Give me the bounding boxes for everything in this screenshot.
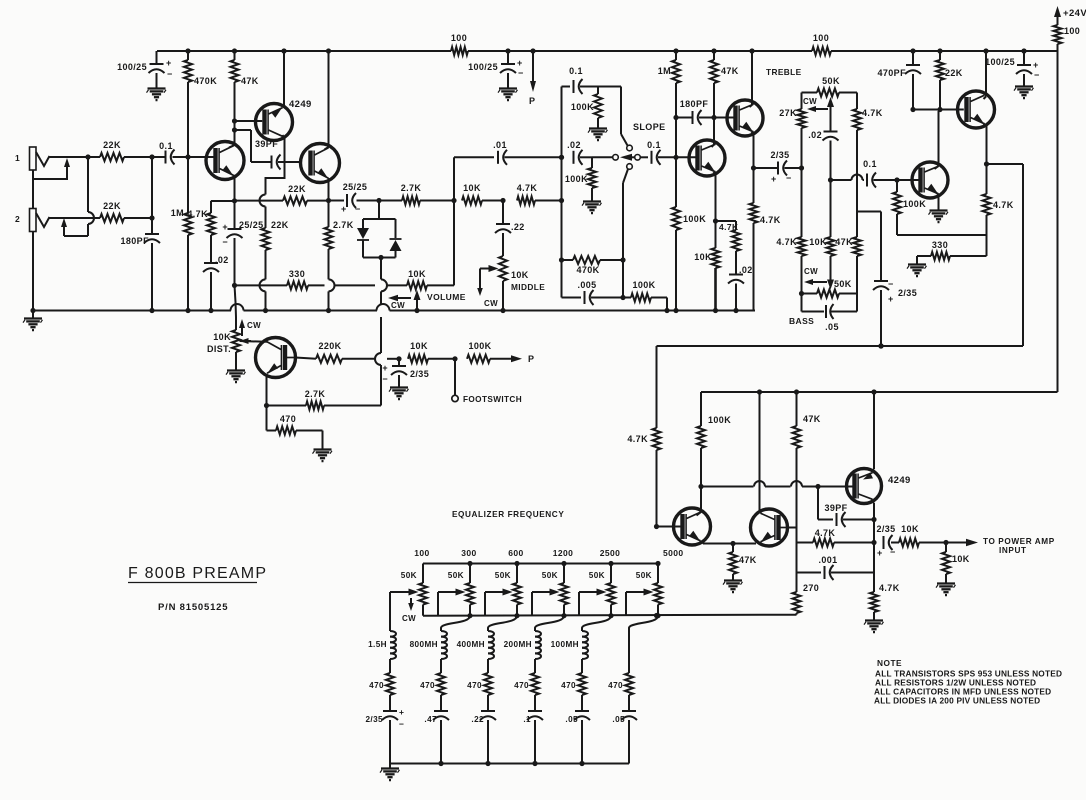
capacitor 180PF (input shunt) [120, 157, 160, 313]
resistor 10K (to middle node) [462, 183, 506, 205]
output arrow TO POWER AMP INPUT [946, 537, 1055, 555]
wire Q2 base [235, 120, 263, 122]
svg-text:+: + [877, 548, 883, 558]
wire Q9 emitter to mixer bus [987, 164, 1024, 346]
potentiometer 50K EQ 600Hz [495, 548, 524, 618]
potentiometer 10K VOLUME [407, 201, 454, 290]
capacitor 2/35 (branch 1) [365, 707, 404, 764]
resistor 4.7K (to slope bus) [517, 183, 564, 205]
resistor 22K (Q8/Q9 load) [936, 48, 963, 112]
resistor 100K (mid branch) with ground [565, 157, 602, 213]
svg-text:−: − [382, 374, 388, 384]
svg-text:ALL DIODES IA 200 PIV UNLESS: ALL DIODES IA 200 PIV UNLESS NOTED [874, 696, 1040, 706]
svg-text:4.7K: 4.7K [815, 528, 836, 538]
svg-text:100K: 100K [632, 280, 655, 290]
svg-text:.05: .05 [565, 715, 578, 724]
svg-text:+: + [1033, 60, 1039, 70]
svg-text:10K: 10K [408, 269, 426, 279]
resistor 47K (Q10/Q11 emitters) with ground [723, 544, 757, 593]
svg-text:300: 300 [461, 548, 476, 558]
EQ wiper 600Hz [485, 589, 513, 616]
svg-text:470PF: 470PF [877, 68, 906, 78]
wire Q4 collector line [296, 358, 317, 359]
svg-text:470: 470 [280, 414, 296, 424]
svg-text:.47: .47 [424, 715, 437, 724]
transistor Q2 4249 [256, 99, 312, 141]
capacitor 39PF (Q12 feedback) [818, 487, 874, 528]
potentiometer 50K EQ 100Hz [401, 548, 430, 616]
svg-text:2.7K: 2.7K [401, 183, 422, 193]
node P (power tap arrow) [529, 48, 536, 106]
resistor 22K (Q2 load, hops node line) [260, 195, 289, 280]
label EQUALIZER FREQUENCY [452, 510, 564, 519]
switch SLOPE [613, 122, 666, 161]
svg-text:22K: 22K [945, 68, 963, 78]
jack 1 switching contact [33, 158, 70, 179]
svg-text:22K: 22K [271, 220, 289, 230]
svg-text:.22: .22 [511, 222, 525, 232]
svg-text:470K: 470K [576, 265, 599, 275]
svg-text:100: 100 [1064, 26, 1080, 36]
svg-text:4.7K: 4.7K [862, 108, 883, 118]
svg-text:CW: CW [247, 321, 261, 330]
svg-text:BASS: BASS [789, 316, 814, 326]
svg-text:FOOTSWITCH: FOOTSWITCH [463, 395, 522, 404]
capacitor 25/25 (Q3 emitter coupling) [329, 182, 382, 214]
wire Q8 emitter with ground [929, 192, 949, 223]
wire Q1 emitter [232, 175, 237, 203]
svg-text:4.7K: 4.7K [993, 200, 1014, 210]
svg-text:100MH: 100MH [551, 640, 579, 649]
wire EQ branch 6 from pot bottom [629, 616, 658, 628]
svg-text:100: 100 [414, 548, 429, 558]
resistor 470K (slope low branch) [559, 256, 623, 275]
svg-text:4.7K: 4.7K [517, 183, 538, 193]
wire jack sleeves to ground [32, 179, 34, 311]
wire Q10 base [657, 526, 683, 528]
inductor 400MH [457, 628, 494, 673]
svg-text:+: + [166, 58, 172, 68]
svg-text:INPUT: INPUT [999, 546, 1027, 555]
svg-text:2/35: 2/35 [876, 524, 895, 534]
resistor 4.7K (emitter, to .02) [187, 201, 234, 263]
capacitor .05 (branch 5) [565, 711, 590, 764]
resistor 22K (jack2 series) [100, 201, 155, 222]
svg-text:10K: 10K [410, 341, 428, 351]
svg-text:4.7K: 4.7K [187, 209, 208, 219]
wire slope bus [561, 87, 563, 298]
node P arrow (dist send) [511, 354, 534, 364]
svg-text:−: − [222, 237, 228, 247]
resistor 4.7K (Q6 emitter) [750, 168, 781, 311]
wire Q11 left lead [760, 510, 761, 513]
svg-text:100: 100 [813, 33, 829, 43]
wire Q11 collector column [759, 392, 761, 510]
svg-text:CW: CW [402, 614, 416, 623]
resistor 1M (Q5 base) [658, 48, 680, 157]
svg-text:10K: 10K [213, 332, 231, 342]
svg-text:.01: .01 [493, 140, 507, 150]
resistor 2.7K (Q4 emitter to node) [267, 389, 382, 410]
bass wiper arrow [827, 272, 834, 290]
potentiometer 50K BASS [789, 279, 857, 326]
svg-text:220K: 220K [318, 341, 341, 351]
resistor 47K (tone right lower) [835, 212, 861, 294]
inductor 1.5H [368, 628, 396, 673]
ground (input jacks) [23, 308, 43, 330]
wire Q10 emitter line [701, 541, 757, 546]
wire right supply bus [1057, 51, 1059, 392]
wire EQ branch 2 from pot bottom [441, 616, 470, 628]
svg-text:47K: 47K [803, 414, 821, 424]
part number [158, 602, 228, 613]
capacitor 2/35 (decoupling) with ground [382, 359, 429, 399]
wire top rail [157, 44, 1058, 51]
resistor 10K (Q5 emitter) [694, 221, 719, 313]
wire EQ branch 3 from pot bottom [488, 616, 517, 628]
resistor 470 (branch 5) [561, 673, 586, 711]
footswitch contact [452, 359, 522, 404]
ground (EQ) [380, 764, 400, 781]
svg-text:470: 470 [420, 681, 435, 690]
resistor 10K (output shunt) with ground [936, 543, 970, 596]
resistor 470 (Q4 emitter to ground) [267, 406, 323, 448]
jack 2 switching contact [61, 218, 88, 236]
resistor 4.7K (mixer input) [627, 346, 660, 529]
svg-text:4.7K: 4.7K [627, 434, 648, 444]
svg-text:100K: 100K [565, 174, 588, 184]
capacitor 0.1 (input coupling) [149, 141, 216, 165]
wire Q4 emitter down [264, 376, 269, 409]
wire EQ branch 4 from pot bottom [535, 616, 564, 628]
EQ wiper 1200Hz [532, 589, 560, 616]
wire Q9 collector to rail [983, 48, 988, 99]
capacitor .01 (coupling to slope filter) [454, 140, 564, 201]
resistor 470 (branch 3) [467, 673, 492, 711]
resistor 100 (rail series, left) [451, 33, 468, 55]
capacitor .001 (feedback) [797, 543, 875, 581]
svg-text:−: − [1034, 70, 1040, 80]
svg-text:600: 600 [508, 548, 523, 558]
svg-text:4249: 4249 [888, 475, 911, 486]
transistor Q3 (second stage) [301, 144, 340, 183]
wire volume line continues [335, 284, 408, 286]
svg-text:P: P [529, 96, 535, 106]
svg-text:39PF: 39PF [255, 139, 278, 149]
wire Q3 collector to rail [325, 147, 329, 150]
capacitor 100/25 (input filter) with ground [117, 51, 173, 100]
resistor 470K (Q1 base bias) [184, 48, 217, 157]
wire jack2 contact to input node (hops jack2 line) [85, 154, 94, 236]
resistor 270 [793, 573, 820, 615]
wire Q6 collector to rail [749, 48, 754, 107]
resistor 470 (branch 1) [369, 673, 394, 711]
svg-text:F 800B PREAMP: F 800B PREAMP [128, 565, 267, 582]
svg-text:+: + [382, 363, 388, 373]
capacitor .22 (branch 3) [471, 711, 496, 764]
capacitor 25/25 (emitter bypass) [222, 201, 263, 288]
DIST CW annotation [239, 319, 261, 336]
resistor 470 (branch 4) [514, 673, 539, 711]
capacitor 100/25 (right filter) with ground [985, 48, 1040, 98]
svg-text:+: + [888, 294, 894, 304]
ground (470) [313, 447, 333, 461]
title F 800B PREAMP [128, 565, 267, 583]
wire 1.5H branch from wiper [389, 592, 391, 628]
svg-text:50K: 50K [822, 76, 840, 86]
potentiometer 50K EQ 300Hz [448, 548, 477, 618]
wire Q6 emitter [751, 132, 756, 171]
wire mixer input line (y=346) [657, 343, 1024, 348]
svg-text:.02: .02 [567, 140, 581, 150]
svg-text:+24V: +24V [1063, 8, 1086, 19]
svg-text:10K: 10K [694, 252, 712, 262]
svg-text:100K: 100K [683, 214, 706, 224]
capacitor 0.1 (switch output) [640, 140, 678, 165]
svg-text:VOLUME: VOLUME [427, 292, 466, 302]
wire EQ ground line [390, 761, 629, 766]
wire Q12 base [818, 486, 853, 488]
svg-text:4.7K: 4.7K [879, 583, 900, 593]
treble CW annotation [803, 97, 828, 112]
capacitor 2/35 (tone stack coupling) [754, 150, 805, 184]
transistor Q9 [958, 91, 995, 128]
svg-text:470: 470 [561, 681, 576, 690]
svg-text:470: 470 [467, 681, 482, 690]
capacitor 180PF (Q5 feedback) [676, 99, 717, 125]
svg-text:0.1: 0.1 [863, 159, 877, 169]
capacitor 470PF [877, 48, 921, 112]
capacitor 2/35 (output coupling) [876, 524, 899, 558]
wire Q5 base [676, 156, 698, 158]
wire Q6 base [714, 117, 736, 119]
capacitor .05 (branch 6) [612, 711, 637, 764]
resistor 100 (rail series, right) [812, 33, 831, 55]
capacitor .47 (branch 2) [424, 711, 449, 764]
resistor 100K (to ground rail) [623, 280, 670, 313]
resistor 4.7K (tone right top) [853, 93, 883, 212]
resistor 4.7K (fb to ground) [864, 573, 900, 633]
svg-text:1: 1 [15, 153, 20, 163]
svg-text:DIST.: DIST. [207, 344, 231, 354]
svg-text:TREBLE: TREBLE [766, 67, 802, 77]
svg-text:50K: 50K [589, 571, 605, 580]
svg-text:100K: 100K [468, 341, 491, 351]
DIST wiper arrow to Q4 [240, 338, 252, 344]
transistor Q4 (distortion) [256, 338, 296, 378]
svg-text:.001: .001 [818, 555, 837, 565]
wire mixer supply line (y=392) [701, 389, 1058, 394]
svg-text:.1: .1 [523, 715, 531, 724]
svg-text:4249: 4249 [289, 99, 312, 110]
svg-text:47K: 47K [721, 66, 739, 76]
svg-text:800MH: 800MH [410, 640, 438, 649]
svg-text:2: 2 [15, 214, 20, 224]
capacitor .02 (emitter series) [203, 255, 229, 313]
svg-text:−: − [888, 279, 894, 289]
svg-text:+: + [341, 204, 347, 214]
middle wiper arrow CW [477, 265, 498, 308]
resistor 47K (Q1 collector load) [231, 48, 259, 121]
svg-text:4.7K: 4.7K [760, 215, 781, 225]
svg-text:2/35: 2/35 [365, 715, 383, 724]
svg-text:MIDDLE: MIDDLE [511, 282, 545, 292]
svg-text:25/25: 25/25 [343, 182, 368, 192]
svg-text:EQUALIZER FREQUENCY: EQUALIZER FREQUENCY [452, 510, 564, 519]
svg-text:330: 330 [932, 240, 948, 250]
wire tone mid tap to 2/35 [857, 212, 881, 282]
svg-text:0.1: 0.1 [159, 141, 173, 151]
transistor Q6 [727, 100, 763, 136]
svg-text:39PF: 39PF [824, 503, 847, 513]
svg-text:22K: 22K [103, 201, 121, 211]
capacitor .05 (bass loop) [802, 294, 858, 333]
resistor 4.7K (mixer to output) [797, 528, 875, 547]
svg-text:2/35: 2/35 [410, 369, 429, 379]
resistor 2.7K (to volume node) [379, 183, 457, 205]
svg-text:CW: CW [804, 267, 818, 276]
svg-text:P: P [528, 354, 534, 364]
transistor Q1 (first stage) [206, 142, 244, 180]
svg-text:22K: 22K [103, 140, 121, 150]
potentiometer 10K MIDDLE [499, 256, 545, 313]
resistor 220K [316, 341, 402, 363]
EQ wiper 300Hz [438, 589, 466, 616]
wire EQ branch 5 from pot bottom [582, 616, 611, 628]
volume CW annotation [388, 295, 411, 310]
svg-text:−: − [518, 68, 524, 78]
wire Q8 base [897, 179, 921, 181]
svg-text:10K: 10K [511, 270, 529, 280]
svg-text:1M: 1M [171, 208, 184, 218]
wire EQ wiper bus [423, 613, 797, 618]
capacitor 100/25 (second filter) with ground [468, 48, 524, 100]
svg-text:47K: 47K [241, 76, 259, 86]
wire Q12 emitter column [873, 392, 875, 468]
wire Q8 collector to 22K node [935, 110, 941, 169]
resistor 2.7K (Q3 emitter, vertical) [325, 201, 354, 314]
wire 22K to ground rail (hops volume line) [260, 279, 269, 313]
wire Q12 collector bottom [871, 500, 877, 522]
wire feedback line to 100K [897, 234, 987, 236]
capacitor .02 (treble wiper) [808, 130, 838, 183]
resistor 330 with ground (Q9 emitter) [907, 235, 987, 276]
wire Q11 base lead to output node [788, 528, 797, 543]
svg-text:100K: 100K [708, 415, 731, 425]
svg-text:+: + [517, 58, 523, 68]
svg-text:NOTE: NOTE [877, 658, 902, 668]
svg-text:200MH: 200MH [504, 640, 532, 649]
wire volume line hops 2.7K column [329, 279, 335, 291]
svg-text:2/35: 2/35 [770, 150, 789, 160]
resistor 4.7K (Q5 emitter branch) [716, 221, 741, 274]
capacitor 0.1 (to Q8) [863, 159, 899, 188]
svg-text:.02: .02 [215, 255, 229, 265]
potentiometer 50K EQ 2500Hz [589, 548, 620, 618]
resistor 10K (output series) [899, 524, 949, 547]
svg-text:50K: 50K [448, 571, 464, 580]
resistor 4.7K (Q9 emitter) [983, 164, 1014, 235]
inductor 200MH [504, 628, 541, 673]
resistor 10K (tone mid lower) [809, 180, 834, 272]
wire Q2 emitter to rail [281, 48, 286, 106]
svg-text:22K: 22K [288, 184, 306, 194]
svg-text:470: 470 [369, 681, 384, 690]
wire Q4 base diag [240, 340, 268, 343]
wire Q5 emitter [713, 172, 718, 224]
svg-text:.02: .02 [739, 265, 753, 275]
resistor 22K (jack1 series) [88, 140, 152, 161]
svg-text:2.7K: 2.7K [305, 389, 326, 399]
svg-text:CW: CW [803, 97, 817, 106]
resistor 1M (base bias) [171, 157, 192, 313]
resistor 330 (Q3 emitter degeneration) [287, 269, 325, 289]
capacitor 39PF (feedback) [251, 139, 302, 170]
svg-text:−: − [890, 547, 896, 557]
potentiometer 50K EQ 1200Hz [542, 548, 573, 618]
wire volume line [235, 284, 288, 286]
svg-text:47K: 47K [739, 555, 757, 565]
wire to slope switch upper contact [621, 87, 628, 146]
svg-text:2/35: 2/35 [898, 288, 917, 298]
wire Q1 collector [229, 118, 237, 147]
svg-text:.02: .02 [808, 130, 822, 140]
transistor Q12 4249 (output) [847, 469, 911, 504]
wire branch 6 (no coil) [628, 628, 630, 673]
+24V supply arrow [1054, 6, 1086, 25]
capacitor .02 (branch) [728, 265, 753, 313]
svg-text:10K: 10K [463, 183, 481, 193]
resistor 4.7K (tone left lower) [776, 168, 805, 296]
wire Q10 bias line (hops two columns) [701, 481, 821, 489]
svg-text:2500: 2500 [600, 548, 621, 558]
svg-text:+: + [399, 707, 404, 717]
svg-text:10K: 10K [809, 237, 827, 247]
NOTE block [874, 658, 1062, 706]
svg-text:−: − [786, 173, 792, 183]
wire diode node down (hops volume line and rail and 220K line) [375, 258, 387, 406]
svg-text:50K: 50K [401, 571, 417, 580]
svg-text:1M: 1M [658, 66, 671, 76]
svg-text:27K: 27K [779, 108, 797, 118]
wire EQ top bus [423, 563, 658, 565]
inductor 800MH [410, 628, 447, 673]
inductor 100MH [551, 628, 588, 673]
svg-text:100/25: 100/25 [985, 57, 1015, 67]
wire treble pot top line [802, 92, 858, 94]
switch contacts [620, 145, 632, 300]
svg-text:180PF: 180PF [120, 236, 149, 246]
wire to switch pole [592, 156, 613, 158]
svg-text:180PF: 180PF [680, 99, 709, 109]
svg-text:100K: 100K [903, 199, 926, 209]
capacitor 2/35 (mid tap, vertical) [873, 279, 917, 349]
svg-text:470: 470 [514, 681, 529, 690]
svg-text:100K: 100K [571, 102, 594, 112]
resistor 27K [779, 93, 805, 169]
capacitor .02 (slope mid branch) [559, 140, 592, 165]
EQ wiper 100Hz [390, 589, 419, 596]
svg-text:.05: .05 [612, 715, 625, 724]
svg-text:0.1: 0.1 [569, 66, 583, 76]
svg-text:50K: 50K [636, 571, 652, 580]
svg-text:5000: 5000 [663, 548, 684, 558]
wire Q3 collector to rail [326, 48, 331, 147]
resistor 100K (top branch) with ground [571, 87, 608, 141]
resistor 470 (branch 2) [420, 673, 445, 711]
svg-text:0.1: 0.1 [647, 140, 661, 150]
svg-text:−: − [167, 69, 173, 79]
